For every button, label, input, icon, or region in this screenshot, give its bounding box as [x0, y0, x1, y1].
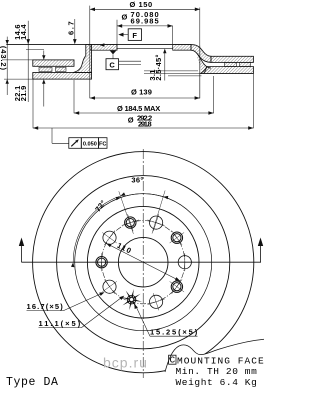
svg-text:F: F	[132, 31, 137, 40]
dim Ø184.5 MAX	[74, 76, 214, 115]
angular dim 36 deg	[121, 194, 163, 198]
wheel bolt hole at 180 deg	[93, 253, 111, 271]
dim Ø70.080/69.985	[117, 10, 173, 51]
runout feature control frame 0.050 FC	[52, 128, 107, 148]
svg-text:Min. TH 20 mm: Min. TH 20 mm	[176, 366, 258, 377]
unpaired arrow on hat surface	[100, 43, 105, 46]
bolt hole circle (dash-dot)	[102, 221, 185, 304]
horizontal centreline / cutting plane	[22, 261, 262, 263]
hat top plate right segment (bore to step)	[173, 45, 191, 51]
svg-text:14.4: 14.4	[19, 24, 28, 40]
leader 16.7 (x5)	[27, 292, 105, 311]
vertical centreline	[142, 149, 144, 378]
left band vent vane 2	[56, 67, 67, 71]
leader 11.1 (x5)	[39, 296, 125, 328]
right band vent vane 1	[225, 62, 237, 66]
svg-text:15.25(×5): 15.25(×5)	[150, 328, 198, 337]
svg-text:bcp.ru: bcp.ru	[103, 355, 148, 371]
wheel bolt hole at 36 deg	[170, 279, 185, 294]
svg-text:Ø 139: Ø 139	[131, 88, 152, 97]
wheel bolt hole at 252 deg	[122, 214, 139, 231]
left band vent vane 1	[39, 67, 52, 71]
hat top surface line	[6, 44, 191, 46]
svg-text:291.8: 291.8	[138, 119, 152, 128]
dim 22.1/21.9 (vertical)	[13, 51, 45, 107]
svg-text:Ø 150: Ø 150	[130, 0, 153, 9]
front view circles (clipped at note block)	[33, 152, 254, 373]
svg-text:(43.2): (43.2)	[0, 46, 8, 71]
svg-text:6.7: 6.7	[67, 20, 76, 35]
mid background line 2	[144, 72, 200, 74]
hub pocket background line 2	[119, 64, 141, 66]
hat left wall / neck	[73, 45, 92, 73]
hat outer edge circle	[87, 206, 199, 318]
mounting face short line left	[26, 48, 44, 50]
right band top cheek	[211, 56, 253, 62]
wheel bolt hole at 72 deg	[148, 293, 165, 310]
bore far-side chamfer line	[117, 47, 173, 49]
dim Ø292.2/291.8	[33, 74, 253, 130]
datum C box with triangle on mounting face	[106, 51, 119, 70]
band top extension left	[2, 59, 33, 61]
right band vent vane 2	[240, 62, 251, 66]
svg-text:C: C	[109, 61, 115, 70]
hat flange circle	[75, 194, 212, 331]
datum C box in note	[169, 355, 176, 364]
wheel bolt hole at 288 deg	[148, 214, 165, 231]
friction band inner circle	[57, 176, 230, 349]
svg-text:Type DA: Type DA	[6, 376, 59, 389]
svg-text:Ø: Ø	[128, 116, 134, 125]
locating pin hole (starburst marked)	[121, 289, 142, 310]
radial centreline 287 deg	[152, 191, 165, 234]
wheel bolt hole at 0 deg	[176, 253, 194, 271]
svg-text:16.7(×5): 16.7(×5)	[27, 302, 64, 311]
leader 15.25 (x5)	[134, 304, 197, 337]
dim Ø139	[90, 46, 200, 100]
datum F box	[118, 29, 141, 41]
svg-text:2.5·45°: 2.5·45°	[154, 54, 163, 80]
mid background line 3	[168, 75, 202, 77]
dim Ø150	[90, 0, 200, 98]
note block break line (squiggle)	[165, 339, 264, 372]
svg-text:Ø 184.5 MAX: Ø 184.5 MAX	[117, 104, 161, 113]
mid background line 1	[144, 70, 198, 72]
dim Ø110 bolt circle	[106, 243, 180, 281]
wheel bolt hole at 324 deg	[170, 231, 185, 246]
svg-text:C: C	[169, 355, 175, 366]
angular dim 72 deg	[73, 196, 120, 262]
svg-text:36°: 36°	[131, 176, 143, 185]
dim 14.6/14.4 (vertical)	[13, 21, 30, 102]
svg-text:FC: FC	[99, 142, 106, 148]
hub pocket background line 1	[119, 60, 141, 62]
cutting plane arrow left	[21, 246, 23, 262]
right band bottom cheek	[201, 67, 254, 74]
svg-text:21.9: 21.9	[19, 85, 28, 101]
dim (43.2) (vertical)	[0, 37, 9, 95]
dim 6.7 (vertical)	[67, 19, 77, 44]
disc outer circle	[33, 152, 254, 373]
left brake band bottom cheek	[33, 73, 92, 80]
svg-text:Weight 6.4 Kg: Weight 6.4 Kg	[176, 377, 258, 388]
svg-text:Ø: Ø	[122, 13, 128, 22]
svg-text:69.985: 69.985	[131, 17, 160, 26]
centre bore circle	[118, 237, 168, 287]
step-to-band fillet junction	[197, 54, 211, 74]
left brake band top cheek	[33, 60, 74, 66]
mounting face line right	[173, 49, 191, 51]
cutting plane arrow right	[260, 246, 262, 262]
band bottom extension left	[4, 78, 33, 80]
svg-text:0.050: 0.050	[83, 142, 97, 148]
chamfer note 3.1/2.5 x45° (vertical)	[148, 49, 166, 81]
svg-text:MOUNTING FACE: MOUNTING FACE	[177, 355, 265, 366]
radial centreline 251 deg	[119, 191, 134, 234]
hat top plate left segment (to bore edge)	[90, 45, 117, 51]
wheel bolt hole at 144 deg	[102, 279, 117, 294]
wheel bolt hole at 216 deg	[102, 231, 117, 246]
hat step down to right band	[191, 45, 211, 63]
